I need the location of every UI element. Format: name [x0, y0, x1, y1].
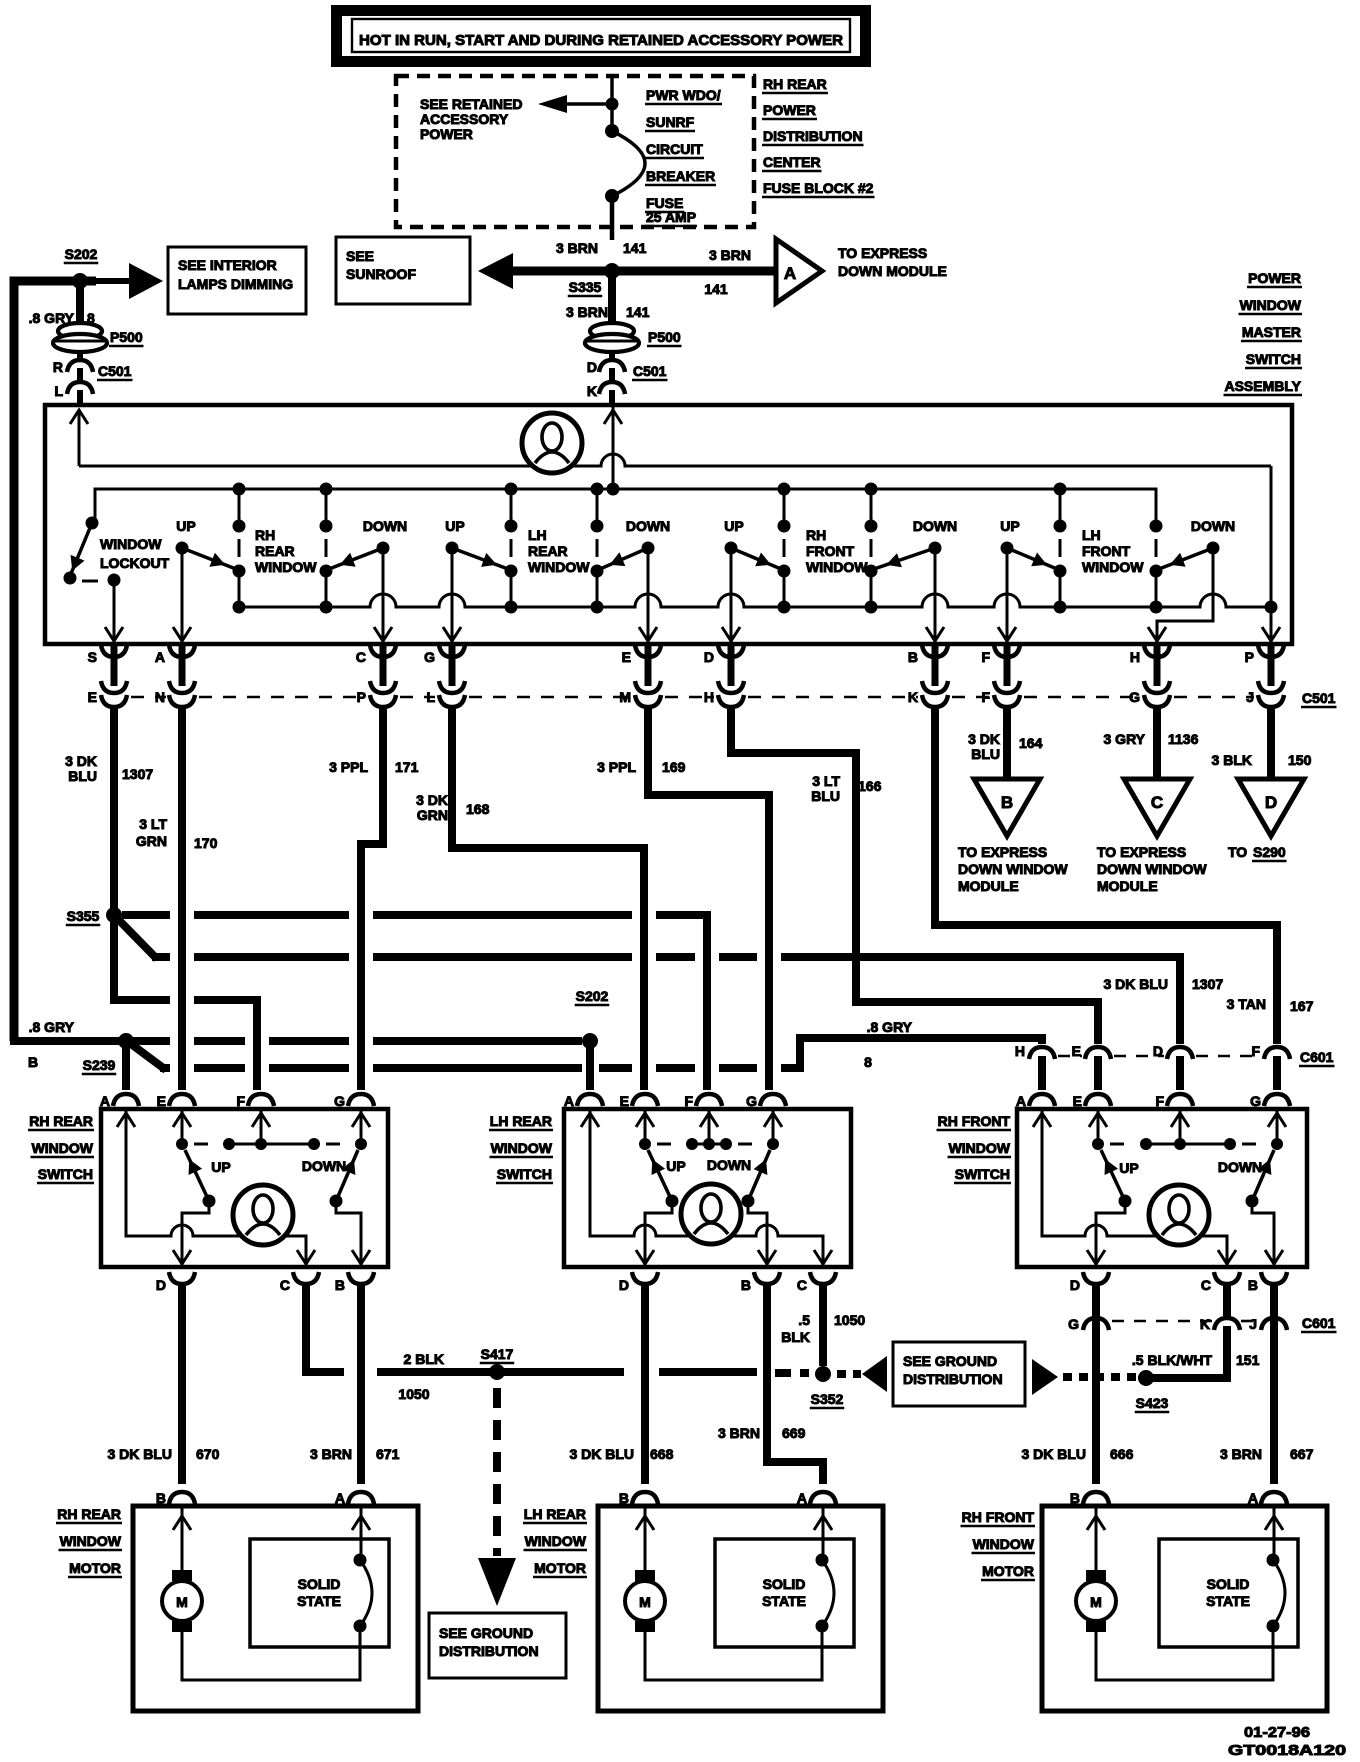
svg-text:GRN: GRN	[136, 833, 167, 849]
switch contact stubs	[233, 489, 1163, 607]
svg-text:WINDOW: WINDOW	[491, 1140, 553, 1156]
svg-text:SWITCH: SWITCH	[38, 1166, 93, 1182]
svg-text:25 AMP: 25 AMP	[646, 209, 696, 225]
svg-text:DISTRIBUTION: DISTRIBUTION	[439, 1643, 539, 1659]
svg-text:SWITCH: SWITCH	[955, 1166, 1010, 1182]
svg-text:S239: S239	[83, 1057, 116, 1073]
svg-text:M: M	[1090, 1594, 1102, 1610]
see retained accessory power note	[420, 96, 522, 142]
connector C501 pin H/G	[1129, 644, 1170, 720]
wire 3 BRN 669 (LH rear B to motor A)	[718, 1285, 823, 1484]
connector pin B (RH rear motor)	[156, 1490, 195, 1506]
svg-text:WINDOW: WINDOW	[949, 1140, 1011, 1156]
svg-text:UP: UP	[666, 1158, 685, 1174]
svg-text:1307: 1307	[122, 766, 153, 782]
svg-text:MODULE: MODULE	[958, 878, 1019, 894]
label LH REAR window	[528, 527, 590, 575]
RH front window motor box	[1042, 1506, 1327, 1711]
svg-text:FRONT: FRONT	[806, 543, 855, 559]
svg-text:BLU: BLU	[971, 746, 1000, 762]
connector pin F (RH rear switch)	[236, 1093, 274, 1109]
svg-text:SUNROOF: SUNROOF	[346, 266, 416, 282]
wire 3 BRN 141 to express down module	[612, 247, 776, 297]
connector pin B (LH rear switch output)	[741, 1272, 780, 1293]
svg-text:3 LT: 3 LT	[139, 816, 167, 832]
svg-text:UP: UP	[1119, 1160, 1138, 1176]
wire 3 BLK 150 to triangle D	[1212, 710, 1312, 779]
connector pin G (RH front switch)	[1250, 1093, 1290, 1109]
svg-text:.8 GRY: .8 GRY	[29, 1019, 75, 1035]
LH rear switch UP output wire	[645, 1201, 672, 1267]
connector pin B (RH front motor)	[1070, 1490, 1109, 1506]
svg-text:BREAKER: BREAKER	[646, 168, 715, 184]
C501 row dashed line	[131, 690, 1337, 707]
svg-text:STATE: STATE	[1206, 1593, 1250, 1609]
svg-text:669: 669	[782, 1425, 806, 1441]
svg-text:WINDOW: WINDOW	[525, 1533, 587, 1549]
wire S355 to RH rear switch F	[114, 915, 257, 1090]
svg-text:DISTRIBUTION: DISTRIBUTION	[903, 1371, 1003, 1387]
node S239	[82, 1033, 134, 1074]
label RH front window switch	[937, 1113, 1012, 1183]
svg-text:R: R	[53, 359, 63, 375]
RH rear switch contact row	[176, 1138, 367, 1150]
wire 3 DK GRN 168 (G/L to LH rear switch E)	[416, 710, 644, 1090]
LH rear switch input arrows	[581, 1109, 782, 1144]
svg-text:SEE INTERIOR: SEE INTERIOR	[178, 257, 277, 273]
master RH FRONT window UP switch	[722, 518, 781, 642]
wire 3 DK BLU 670 (RH rear D to motor B)	[107, 1285, 219, 1484]
solid state module (LH rear)	[715, 1539, 854, 1647]
master LH REAR window DOWN switch	[600, 518, 670, 642]
svg-text:3 BRN: 3 BRN	[310, 1446, 352, 1462]
svg-text:D: D	[1070, 1277, 1080, 1293]
RH front switch UP output wire	[1096, 1201, 1125, 1267]
svg-text:E: E	[620, 1093, 629, 1109]
svg-text:F: F	[981, 649, 990, 665]
svg-text:S417: S417	[481, 1346, 514, 1362]
connector pin B (RH rear switch output)	[335, 1272, 374, 1293]
connector C601 pin E/E	[1072, 1043, 1111, 1090]
svg-text:D: D	[1265, 793, 1277, 812]
label LH rear window motor	[523, 1506, 587, 1577]
wire 3 BRN 667 (RH front B to motor A)	[1220, 1285, 1314, 1484]
wire bus 1307 lower (S355 to C601 D / RH front switch F)	[152, 957, 1223, 1044]
wire bus 1307 upper (S355 to LH rear switch F)	[122, 915, 707, 1090]
svg-text:164: 164	[1019, 735, 1043, 751]
RH front window switch box	[1017, 1109, 1307, 1267]
svg-text:E: E	[88, 689, 97, 705]
svg-text:A: A	[335, 1490, 345, 1506]
svg-text:169: 169	[662, 759, 686, 775]
wire S239 diagonal to lower illumination bus	[123, 1038, 166, 1070]
svg-text:.5: .5	[798, 1312, 810, 1328]
svg-text:167: 167	[1290, 998, 1314, 1014]
grommet P500 (left)	[53, 323, 144, 352]
window lockout switch	[64, 517, 170, 643]
svg-text:G: G	[746, 1093, 757, 1109]
connector pin E (RH rear switch)	[157, 1093, 195, 1109]
svg-text:E: E	[157, 1093, 166, 1109]
RH rear switch A-to-C lamp feed wire	[126, 1109, 306, 1267]
svg-text:BLK: BLK	[781, 1329, 810, 1345]
C601 row 2 dashed line	[1112, 1315, 1337, 1332]
svg-text:G: G	[1250, 1093, 1261, 1109]
svg-text:3 DK BLU: 3 DK BLU	[1021, 1446, 1086, 1462]
see ground distribution box (bottom)	[429, 1613, 566, 1678]
svg-text:.8 GRY: .8 GRY	[867, 1019, 913, 1035]
svg-text:MOTOR: MOTOR	[982, 1563, 1034, 1579]
svg-text:B: B	[908, 649, 918, 665]
connector pin F (LH rear switch)	[684, 1093, 722, 1109]
svg-text:FUSE BLOCK #2: FUSE BLOCK #2	[763, 180, 874, 196]
svg-text:CIRCUIT: CIRCUIT	[646, 141, 703, 157]
connector pin C (RH front switch output)	[1201, 1272, 1240, 1293]
RH rear switch output arrows	[173, 1250, 370, 1264]
svg-text:F: F	[684, 1093, 693, 1109]
svg-text:3 DK BLU: 3 DK BLU	[569, 1446, 634, 1462]
LH rear motor return wire	[645, 1626, 822, 1680]
svg-text:M: M	[176, 1594, 188, 1610]
svg-text:LH REAR: LH REAR	[490, 1113, 552, 1129]
svg-text:S355: S355	[67, 908, 100, 924]
svg-text:BLU: BLU	[811, 788, 840, 804]
LH rear switch DOWN output wire	[748, 1201, 767, 1267]
svg-text:3 DK: 3 DK	[65, 753, 97, 769]
fuse block location labels	[762, 76, 875, 197]
wire 3 DK BLU 1307 (S/E to S355)	[65, 710, 153, 915]
master LH FRONT window DOWN switch	[1148, 518, 1235, 642]
svg-text:SEE GROUND: SEE GROUND	[903, 1353, 997, 1369]
svg-text:SWITCH: SWITCH	[1246, 351, 1301, 367]
master LH FRONT window UP switch	[998, 518, 1057, 642]
svg-text:UP: UP	[176, 518, 195, 534]
svg-text:C601: C601	[1302, 1315, 1336, 1331]
power source label box: HOT IN RUN	[331, 5, 871, 67]
svg-text:WINDOW: WINDOW	[806, 559, 868, 575]
connector pin A (LH rear switch)	[564, 1093, 603, 1109]
wire S202 to LH rear switch A	[586, 1041, 594, 1090]
svg-text:RH: RH	[806, 527, 826, 543]
svg-text:DOWN: DOWN	[363, 518, 407, 534]
svg-text:WINDOW: WINDOW	[100, 536, 162, 552]
svg-text:LH: LH	[528, 527, 547, 543]
connector C501 pin G/L	[424, 644, 465, 720]
svg-text:B: B	[741, 1277, 751, 1293]
svg-text:WINDOW: WINDOW	[973, 1536, 1035, 1552]
svg-text:D: D	[619, 1277, 629, 1293]
svg-text:SEE: SEE	[346, 248, 374, 264]
off-page triangle B	[958, 779, 1068, 894]
wire 3 TAN 167 (B/K to C601 F)	[935, 710, 1314, 1044]
svg-text:141: 141	[623, 240, 647, 256]
svg-text:POWER: POWER	[420, 126, 473, 142]
svg-text:CENTER: CENTER	[763, 154, 821, 170]
svg-text:STATE: STATE	[762, 1593, 806, 1609]
svg-text:B: B	[1001, 793, 1013, 812]
solid state internal arc (RH front)	[1267, 1554, 1286, 1633]
wire .5 BLK 1050 (LH rear C to S352)	[781, 1285, 865, 1366]
svg-text:C501: C501	[633, 363, 667, 379]
svg-text:DOWN: DOWN	[707, 1157, 751, 1173]
off-page triangle D	[1228, 779, 1304, 861]
svg-text:G: G	[424, 649, 435, 665]
svg-text:ACCESSORY: ACCESSORY	[420, 111, 509, 127]
svg-text:ASSEMBLY: ASSEMBLY	[1224, 378, 1301, 394]
svg-text:A: A	[1016, 1093, 1026, 1109]
svg-text:P: P	[357, 689, 366, 705]
svg-text:D: D	[587, 359, 597, 375]
wire 3 DK BLU 668 (LH rear D to motor B)	[569, 1285, 673, 1484]
svg-text:C: C	[356, 649, 366, 665]
svg-text:PWR WDO/: PWR WDO/	[646, 87, 721, 103]
master LH REAR window UP switch	[443, 518, 508, 642]
svg-text:SWITCH: SWITCH	[497, 1166, 552, 1182]
svg-text:F: F	[1155, 1093, 1164, 1109]
svg-text:MOTOR: MOTOR	[69, 1560, 121, 1576]
wire 3 PPL 169 (E/M to LH rear switch G)	[597, 710, 769, 1090]
RH front switch lamp	[1149, 1185, 1209, 1245]
svg-text:E: E	[1073, 1093, 1082, 1109]
svg-text:DOWN: DOWN	[1191, 518, 1235, 534]
svg-text:A: A	[1248, 1490, 1258, 1506]
wire .8 GRY illumination bus upper (to S202)	[10, 1019, 582, 1070]
connector C501 pin E/M	[619, 644, 661, 720]
connector pin A (LH rear motor)	[797, 1490, 836, 1506]
svg-text:P500: P500	[110, 329, 143, 345]
svg-text:TO EXPRESS: TO EXPRESS	[1097, 844, 1186, 860]
C601 row 1 dashed line	[1058, 1049, 1335, 1066]
connector C501 pin D/H	[704, 644, 744, 720]
svg-text:A: A	[797, 1490, 807, 1506]
svg-text:SOLID: SOLID	[298, 1576, 341, 1592]
wire S355 diagonal to lower 1307 bus	[111, 912, 157, 959]
wire 3 DK BLU 666 (RH front D to motor B)	[1021, 1285, 1133, 1484]
dashed wire to S352	[775, 1369, 809, 1377]
power window master switch assembly box	[45, 405, 1292, 644]
arrow to interior lamps dimming	[96, 263, 163, 299]
svg-text:168: 168	[466, 801, 490, 817]
connector pin D (RH front switch output)	[1070, 1272, 1109, 1293]
node S417	[480, 1346, 515, 1380]
svg-text:UP: UP	[724, 518, 743, 534]
label RH rear window motor	[56, 1506, 122, 1577]
connector C601 pin D/F	[1153, 1043, 1193, 1090]
svg-text:C501: C501	[98, 363, 132, 379]
svg-text:1307: 1307	[1192, 976, 1223, 992]
svg-text:S290: S290	[1253, 844, 1286, 860]
LH rear switch UP blade	[648, 1150, 686, 1208]
svg-text:DISTRIBUTION: DISTRIBUTION	[763, 128, 863, 144]
svg-text:H: H	[704, 689, 714, 705]
svg-text:WINDOW: WINDOW	[1240, 297, 1302, 313]
svg-text:UP: UP	[1000, 518, 1019, 534]
LH rear switch contact row	[639, 1138, 779, 1150]
connector C501 pins R/L	[53, 352, 133, 403]
svg-text:G: G	[334, 1093, 345, 1109]
svg-text:GT0018A120: GT0018A120	[1228, 1742, 1346, 1759]
svg-text:MASTER: MASTER	[1242, 324, 1301, 340]
svg-text:3 BRN: 3 BRN	[556, 240, 598, 256]
drawing date and number	[1228, 1724, 1346, 1759]
connector C601 pin H/A	[1015, 1043, 1055, 1090]
svg-text:UP: UP	[211, 1159, 230, 1175]
svg-text:3 DK BLU: 3 DK BLU	[107, 1446, 172, 1462]
svg-text:TO EXPRESS: TO EXPRESS	[838, 245, 927, 261]
connector pin B (RH front switch output)	[1248, 1272, 1287, 1293]
svg-text:TO EXPRESS: TO EXPRESS	[958, 844, 1047, 860]
svg-text:BLU: BLU	[68, 768, 97, 784]
svg-text:K: K	[1200, 1316, 1210, 1332]
off-page triangle C	[1097, 779, 1207, 894]
svg-text:GRN: GRN	[417, 807, 448, 823]
svg-text:RH: RH	[255, 527, 275, 543]
LH rear window motor box	[598, 1506, 883, 1711]
svg-text:150: 150	[1288, 752, 1312, 768]
RH front switch UP blade	[1101, 1150, 1139, 1208]
svg-text:SOLID: SOLID	[763, 1576, 806, 1592]
svg-text:WINDOW: WINDOW	[1082, 559, 1144, 575]
connector C601 pin J	[1249, 1316, 1287, 1332]
RH front switch output arrows	[1087, 1250, 1283, 1264]
svg-text:DOWN WINDOW: DOWN WINDOW	[1097, 861, 1207, 877]
connector pin D (RH rear switch output)	[156, 1272, 195, 1293]
wire K entry	[604, 407, 622, 489]
connector pin E (RH front switch)	[1073, 1093, 1111, 1109]
svg-text:B: B	[335, 1277, 345, 1293]
svg-text:B: B	[28, 1054, 38, 1070]
svg-text:WINDOW: WINDOW	[60, 1533, 122, 1549]
svg-text:H: H	[1130, 649, 1140, 665]
wire bus L right drop to P	[1262, 466, 1280, 642]
svg-text:FRONT: FRONT	[1082, 543, 1131, 559]
svg-text:UP: UP	[445, 518, 464, 534]
svg-text:S352: S352	[811, 1391, 844, 1407]
label LH FRONT window	[1082, 527, 1144, 575]
svg-text:POWER: POWER	[763, 102, 816, 118]
see interior lamps dimming box	[168, 247, 306, 314]
connector pin G (LH rear switch)	[746, 1093, 786, 1109]
svg-text:MOTOR: MOTOR	[534, 1560, 586, 1576]
LH rear window switch box	[564, 1109, 851, 1267]
connector pin G (RH rear switch)	[334, 1093, 374, 1109]
svg-text:C501: C501	[1302, 690, 1336, 706]
svg-text:DOWN: DOWN	[913, 518, 957, 534]
svg-text:J: J	[1249, 1316, 1257, 1332]
svg-text:MODULE: MODULE	[1097, 878, 1158, 894]
svg-text:E: E	[1072, 1043, 1081, 1059]
svg-text:671: 671	[376, 1446, 400, 1462]
svg-text:2 BLK: 2 BLK	[404, 1351, 444, 1367]
svg-text:POWER: POWER	[1248, 270, 1301, 286]
master RH FRONT window DOWN switch	[874, 518, 957, 642]
svg-text:RH FRONT: RH FRONT	[962, 1509, 1035, 1525]
motor M (RH rear)	[162, 1570, 202, 1632]
grommet P500 (right)	[585, 323, 682, 352]
svg-text:M: M	[639, 1594, 651, 1610]
svg-text:1050: 1050	[398, 1386, 429, 1402]
node S352	[810, 1366, 845, 1408]
wire .8 GRY 8 left drop	[14, 281, 96, 1041]
svg-text:3 DK BLU: 3 DK BLU	[1103, 976, 1168, 992]
svg-text:B: B	[619, 1490, 629, 1506]
RH rear switch input arrows	[117, 1109, 370, 1144]
RH front switch DOWN blade	[1218, 1150, 1274, 1208]
node S335 junction	[568, 263, 620, 296]
arrow from ground distribution box to S423	[1032, 1359, 1136, 1395]
motor M (RH front)	[1076, 1570, 1116, 1632]
svg-text:3 PPL: 3 PPL	[329, 759, 368, 775]
svg-text:B: B	[1248, 1277, 1258, 1293]
svg-text:SUNRF: SUNRF	[646, 114, 695, 130]
wire 3 LT GRN 170 (A/N to RH rear switch E)	[136, 710, 218, 1090]
svg-text:C: C	[797, 1277, 807, 1293]
connector C501 pin P/J	[1245, 644, 1284, 720]
svg-text:171: 171	[395, 759, 419, 775]
svg-text:3 PPL: 3 PPL	[597, 759, 636, 775]
arrow to see retained accessory power	[538, 95, 613, 113]
LH rear switch DOWN blade	[707, 1150, 770, 1208]
wire 3 PPL 171 (C/P to RH rear switch G)	[329, 710, 418, 1090]
svg-text:A: A	[100, 1093, 110, 1109]
svg-text:REAR: REAR	[255, 543, 295, 559]
wire 3 LT BLU 166 (D/H to C601 E)	[731, 710, 1098, 1044]
fuse block dashed box	[396, 76, 754, 227]
RH rear switch UP output wire	[182, 1201, 209, 1267]
wire 2 BLK 1050 ground (RH rear C to S417/S352)	[306, 1285, 757, 1402]
svg-text:3 TAN: 3 TAN	[1227, 996, 1266, 1012]
label RH front window motor	[961, 1509, 1036, 1580]
svg-text:A: A	[784, 264, 796, 283]
svg-text:STATE: STATE	[297, 1593, 341, 1609]
wire bus L (top feed)	[70, 410, 1271, 466]
svg-text:141: 141	[704, 281, 728, 297]
svg-text:LH: LH	[1082, 527, 1101, 543]
svg-text:3 BLK: 3 BLK	[1212, 752, 1252, 768]
connector pin A (RH front switch)	[1016, 1093, 1055, 1109]
svg-text:S423: S423	[1136, 1395, 1169, 1411]
svg-text:WINDOW: WINDOW	[255, 559, 317, 575]
svg-text:E: E	[622, 649, 631, 665]
connector pin A (RH rear motor)	[335, 1490, 374, 1506]
svg-text:C: C	[1201, 1277, 1211, 1293]
svg-text:L: L	[54, 383, 63, 399]
svg-text:P500: P500	[648, 329, 681, 345]
RH front motor B lead	[1087, 1506, 1105, 1570]
RH rear switch lamp	[233, 1185, 293, 1245]
svg-text:LAMPS DIMMING: LAMPS DIMMING	[178, 276, 293, 292]
wire 3 GRY 1136 to triangle C	[1104, 710, 1199, 779]
connector C601 pin G	[1068, 1316, 1109, 1332]
svg-text:RH REAR: RH REAR	[29, 1113, 93, 1129]
RH front switch contact row	[1092, 1138, 1283, 1150]
svg-text:S: S	[88, 649, 97, 665]
svg-text:667: 667	[1290, 1446, 1314, 1462]
svg-text:RH FRONT: RH FRONT	[938, 1113, 1011, 1129]
svg-text:H: H	[1015, 1043, 1025, 1059]
svg-text:F: F	[1251, 1043, 1260, 1059]
node S423	[1135, 1370, 1170, 1412]
svg-text:151: 151	[1236, 1352, 1260, 1368]
connector pin B (LH rear motor)	[619, 1490, 658, 1506]
svg-text:D: D	[704, 649, 714, 665]
connector C601 pin K	[1200, 1316, 1240, 1332]
LH rear switch lamp	[681, 1184, 741, 1244]
connector C501 pin C/P	[356, 644, 396, 720]
svg-text:8: 8	[864, 1054, 872, 1070]
master RH REAR window UP switch	[173, 518, 236, 642]
svg-text:HOT IN RUN, START AND DURING R: HOT IN RUN, START AND DURING RETAINED AC…	[359, 32, 843, 49]
